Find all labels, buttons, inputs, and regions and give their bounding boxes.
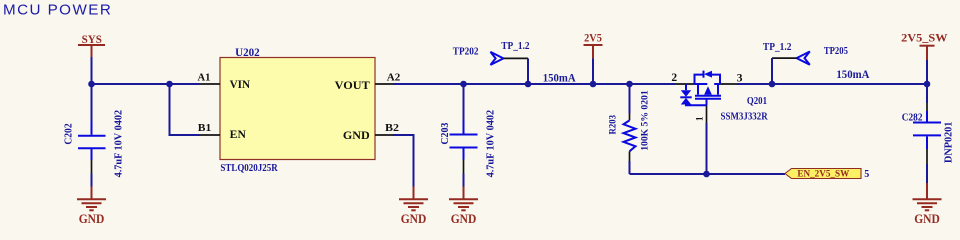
junction node SYS/C202 [88, 81, 95, 88]
junction node TP205 [769, 81, 776, 88]
svg-text:2V5: 2V5 [584, 30, 602, 44]
ground GND at C282 [913, 183, 942, 226]
transistor Q201 (P-MOSFET) [671, 71, 768, 174]
svg-text:C203: C203 [440, 123, 451, 145]
svg-text:Q201: Q201 [747, 96, 767, 107]
svg-text:MCU POWER: MCU POWER [3, 1, 112, 18]
svg-text:TP205: TP205 [824, 45, 848, 57]
junction node 2V5_SW [924, 81, 931, 88]
svg-text:STLQ020J25R: STLQ020J25R [220, 163, 278, 174]
pin B2 (GND) [343, 123, 399, 142]
pin A1 (VIN) [198, 72, 251, 91]
svg-text:B2: B2 [385, 123, 399, 134]
channel bar [695, 95, 721, 97]
wire branch down to EN [170, 84, 200, 135]
ground GND at C203 [449, 187, 478, 226]
pin 2 stub [675, 83, 695, 85]
power port 2V5 [584, 30, 603, 84]
svg-text:GND: GND [79, 212, 105, 226]
power port SYS [78, 34, 105, 57]
svg-text:TP202: TP202 [453, 46, 479, 58]
svg-text:A1: A1 [198, 72, 211, 83]
svg-text:150mA: 150mA [836, 67, 869, 81]
svg-text:EN_2V5_SW: EN_2V5_SW [797, 168, 849, 179]
wire B2 to ground [393, 135, 414, 187]
gate bar [695, 98, 721, 100]
svg-text:U202: U202 [235, 45, 260, 59]
wire SYS stub to main net [91, 57, 93, 84]
svg-text:100K 5% 0201: 100K 5% 0201 [639, 90, 650, 151]
junction node gate [703, 171, 710, 178]
wire gate net (bottom) [630, 173, 786, 175]
IC U202 body [220, 58, 375, 160]
svg-text:2V5_SW: 2V5_SW [901, 30, 947, 44]
body diode loop [695, 75, 704, 84]
junction node A1/B1 branch [166, 81, 173, 88]
svg-text:EN: EN [230, 129, 247, 141]
capacitor C282 [902, 84, 955, 183]
svg-text:GND: GND [451, 212, 477, 226]
svg-text:A2: A2 [387, 72, 401, 83]
capacitor C203 [440, 84, 496, 187]
wire pin3 to 2V5_SW [737, 83, 927, 85]
svg-text:GND: GND [914, 212, 940, 226]
capacitor C202 [63, 84, 124, 187]
junction node TP202 [525, 81, 532, 88]
svg-text:TP_1.2: TP_1.2 [763, 42, 792, 53]
pin B1 (EN) [198, 123, 247, 141]
junction node C203 [460, 81, 467, 88]
pin A2 (VOUT) [335, 72, 401, 92]
svg-text:R203: R203 [608, 115, 619, 135]
gate protection zener [685, 84, 687, 90]
svg-text:TP_1.2: TP_1.2 [501, 41, 529, 52]
svg-text:VOUT: VOUT [335, 78, 370, 92]
svg-text:B1: B1 [198, 123, 212, 134]
svg-text:GND: GND [343, 130, 370, 142]
junction node 2V5 [590, 81, 597, 88]
svg-text:C282: C282 [902, 111, 923, 123]
channel contacts [697, 84, 699, 95]
test point TP205 [763, 42, 848, 84]
svg-text:4.7uF 10V 0402: 4.7uF 10V 0402 [485, 110, 496, 178]
ground GND at B2 [399, 187, 428, 226]
svg-text:3: 3 [737, 72, 743, 84]
ground GND at C202 [77, 187, 106, 226]
junction node R203 top [626, 81, 633, 88]
resistor R203 [608, 84, 651, 174]
port EN_2V5_SW [785, 168, 869, 180]
test point TP202 [453, 41, 530, 84]
svg-text:5: 5 [864, 169, 869, 180]
svg-text:C202: C202 [63, 123, 74, 144]
svg-text:2: 2 [671, 72, 677, 84]
internal source-drain bar [695, 83, 708, 85]
power port 2V5_SW [901, 30, 947, 84]
svg-text:VIN: VIN [230, 79, 251, 91]
gate pin down [706, 99, 708, 105]
svg-text:DNP0201: DNP0201 [944, 122, 955, 163]
svg-text:4.7uF 10V 0402: 4.7uF 10V 0402 [113, 110, 124, 178]
svg-text:150mA: 150mA [543, 70, 576, 84]
svg-text:GND: GND [401, 212, 427, 226]
svg-text:SSM3J332R: SSM3J332R [721, 112, 769, 123]
wire SYS node to A1 [92, 83, 200, 85]
svg-text:1: 1 [695, 116, 705, 121]
wire VOUT net [393, 83, 675, 85]
pin 3 stub [720, 83, 737, 85]
